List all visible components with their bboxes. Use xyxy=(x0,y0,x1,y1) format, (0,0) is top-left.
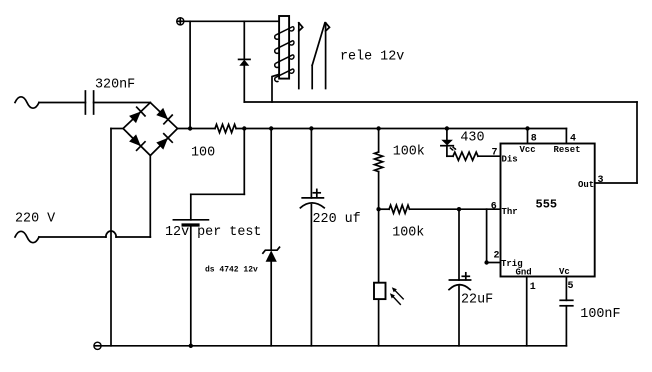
svg-text:6: 6 xyxy=(491,202,497,213)
svg-text:Vcc: Vcc xyxy=(520,145,536,155)
svg-text:Vc: Vc xyxy=(559,267,570,277)
svg-text:320nF: 320nF xyxy=(95,78,135,93)
svg-text:555: 555 xyxy=(536,198,558,212)
svg-text:2: 2 xyxy=(494,251,500,262)
svg-text:4: 4 xyxy=(570,134,576,145)
svg-text:100k: 100k xyxy=(392,225,424,240)
svg-text:100nF: 100nF xyxy=(580,307,620,322)
svg-text:Gnd: Gnd xyxy=(516,268,532,278)
svg-text:220 uf: 220 uf xyxy=(313,212,361,227)
svg-text:7: 7 xyxy=(492,148,498,159)
svg-text:Reset: Reset xyxy=(554,145,581,155)
svg-text:Thr: Thr xyxy=(502,207,518,217)
svg-text:5: 5 xyxy=(568,281,574,292)
svg-text:12v per test: 12v per test xyxy=(165,225,261,240)
svg-text:100k: 100k xyxy=(393,145,425,160)
svg-text:22uF: 22uF xyxy=(461,293,493,308)
svg-text:220 V: 220 V xyxy=(15,212,55,227)
svg-text:8: 8 xyxy=(531,134,537,145)
svg-text:3: 3 xyxy=(598,175,604,186)
svg-text:430: 430 xyxy=(460,131,484,146)
svg-text:1: 1 xyxy=(530,282,536,293)
svg-text:rele 12v: rele 12v xyxy=(340,50,404,65)
svg-text:Out: Out xyxy=(578,180,594,190)
svg-text:Dis: Dis xyxy=(502,155,518,165)
svg-text:ds 4742 12v: ds 4742 12v xyxy=(205,266,258,275)
svg-text:100: 100 xyxy=(191,145,215,160)
